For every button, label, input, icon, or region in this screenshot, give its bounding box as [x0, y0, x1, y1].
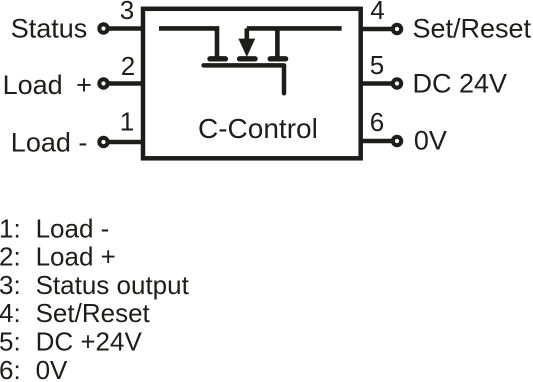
svg-text:1:: 1: [0, 213, 21, 243]
svg-text:3: 3 [120, 0, 134, 25]
svg-text:0V: 0V [414, 126, 447, 156]
svg-text:4: 4 [370, 0, 384, 25]
svg-text:Set/Reset: Set/Reset [413, 14, 532, 44]
svg-text:2:: 2: [0, 242, 21, 272]
svg-text:6:: 6: [0, 355, 21, 382]
svg-text:5: 5 [370, 50, 384, 80]
svg-text:0V: 0V [36, 355, 68, 382]
svg-text:4:: 4: [0, 298, 21, 328]
svg-text:Load +: Load + [3, 70, 92, 100]
svg-text:Load -: Load - [11, 128, 88, 158]
svg-text:5:: 5: [0, 327, 21, 357]
svg-text:6: 6 [370, 107, 384, 137]
svg-text:2: 2 [121, 51, 135, 81]
svg-text:Load +: Load + [36, 242, 116, 272]
svg-text:Status output: Status output [36, 270, 190, 300]
svg-text:DC +24V: DC +24V [36, 327, 143, 357]
svg-text:DC 24V: DC 24V [413, 68, 508, 98]
svg-text:3:: 3: [0, 270, 21, 300]
svg-text:Set/Reset: Set/Reset [36, 298, 151, 328]
svg-text:Load -: Load - [36, 213, 110, 243]
svg-text:1: 1 [120, 107, 134, 137]
svg-text:C-Control: C-Control [198, 113, 318, 144]
svg-text:Status: Status [11, 13, 88, 43]
